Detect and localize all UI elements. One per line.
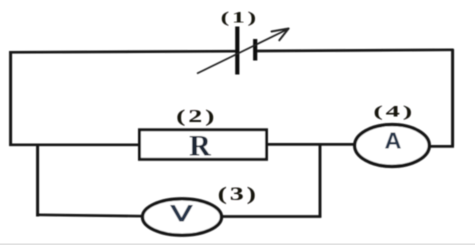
svg-text:V: V (171, 201, 193, 226)
battery short plate (253, 39, 257, 61)
wire bottom right segment (220, 215, 321, 218)
wire top left segment (9, 51, 237, 52)
wire bottom left segment (36, 215, 145, 216)
svg-text:(2): (2) (176, 107, 217, 127)
wire voltmeter branch right vertical (319, 144, 322, 218)
resistor R box (140, 130, 267, 160)
voltmeter U-V ellipse (143, 199, 222, 235)
label (4) (373, 103, 415, 120)
wire middle branch left (9, 143, 140, 146)
svg-text:(1): (1) (221, 9, 259, 26)
ammeter U-A ellipse (355, 125, 430, 167)
svg-text:(4): (4) (373, 103, 415, 120)
svg-text:R: R (189, 129, 211, 162)
svg-text:A: A (385, 127, 402, 153)
battery variable arrow (197, 30, 287, 74)
wire voltmeter branch left vertical (36, 144, 39, 217)
label (3) (218, 184, 259, 205)
label (1) (221, 9, 259, 26)
wire right vertical (451, 49, 454, 146)
wire left vertical (9, 51, 12, 146)
wire ammeter to right vertical (428, 145, 454, 148)
battery long plate (235, 27, 239, 75)
svg-text:(3): (3) (218, 184, 259, 205)
wire top right segment (255, 50, 454, 51)
wire middle branch right (266, 143, 356, 146)
battery arrowhead (272, 29, 289, 41)
bottom edge artifact (0, 243, 475, 245)
label (2) (176, 107, 217, 127)
